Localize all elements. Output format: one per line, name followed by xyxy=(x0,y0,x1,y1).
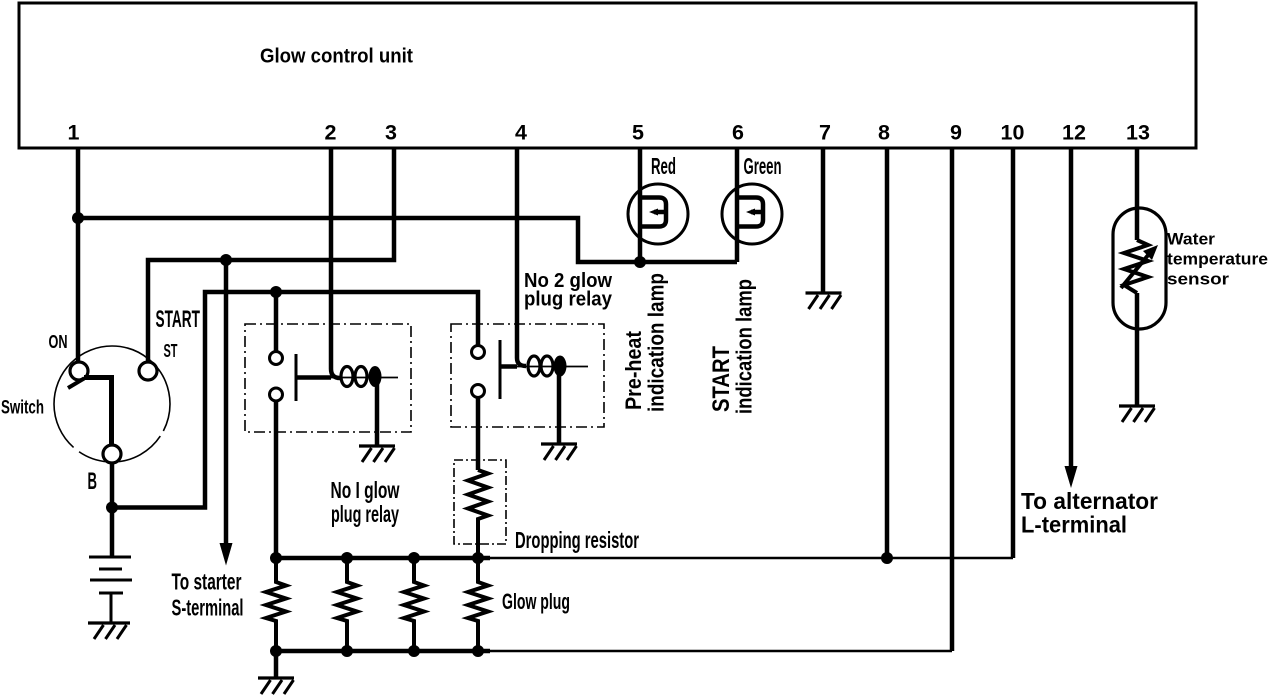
svg-text:Switch: Switch xyxy=(1,398,44,419)
switch contact ST xyxy=(139,362,157,380)
glow plug G3 xyxy=(404,558,424,651)
svg-text:sensor: sensor xyxy=(1167,270,1229,289)
node junction pin1 bus xyxy=(72,212,84,224)
switch rotor link ON-B xyxy=(68,379,84,389)
relay K2 box (No 2 glow plug relay) xyxy=(451,324,604,427)
relay2 armature xyxy=(499,340,502,399)
node top bus junctions xyxy=(270,552,484,564)
svg-text:Dropping resistor: Dropping resistor xyxy=(515,527,639,553)
ground at relay1 xyxy=(359,446,395,462)
wire terminal9 to bottom bus xyxy=(950,148,955,651)
ground at battery xyxy=(88,623,130,639)
svg-text:No I glow: No I glow xyxy=(331,477,400,503)
wire B junction to relay contacts feed xyxy=(112,292,478,508)
svg-text:13: 13 xyxy=(1126,121,1150,145)
svg-text:plug relay: plug relay xyxy=(524,288,613,311)
ground at sensor xyxy=(1119,406,1155,422)
battery BT1 xyxy=(89,508,132,623)
label: Pre-heat indication lamp (vertical) xyxy=(621,273,669,412)
node junction red lamp bottom xyxy=(634,256,646,268)
wire terminal2 to relay1 coil xyxy=(331,148,340,378)
ground at pin7 xyxy=(806,293,842,309)
svg-text:12: 12 xyxy=(1062,121,1086,145)
glow plug G1 xyxy=(266,558,286,651)
wire relay2 coil to ground xyxy=(557,366,562,444)
svg-text:8: 8 xyxy=(878,121,890,145)
wire B to junction xyxy=(110,463,115,508)
wire terminal12 to alternator with arrow xyxy=(1069,148,1074,466)
svg-text:6: 6 xyxy=(732,121,744,145)
wire terminal4 to relay2 coil xyxy=(517,148,526,366)
relay2 coil xyxy=(500,356,588,377)
lamp L1 red indicator bulb xyxy=(628,184,688,244)
node junction relay1 contact feed xyxy=(270,286,282,298)
relay K1 box (No 1 glow plug relay) xyxy=(245,324,411,432)
svg-text:S-terminal: S-terminal xyxy=(172,595,244,621)
svg-text:plug relay: plug relay xyxy=(331,501,399,527)
node junction starter branch xyxy=(220,254,232,266)
wire terminal10 to top bus xyxy=(1011,148,1016,558)
ground at relay2 xyxy=(541,444,577,460)
wire to starter S-terminal with arrow xyxy=(224,260,229,543)
wire sensor to ground xyxy=(1135,293,1140,406)
svg-text:indication lamp: indication lamp xyxy=(644,273,669,412)
wire terminal6 through green lamp xyxy=(735,148,740,262)
svg-text:ST: ST xyxy=(164,341,178,361)
relay1 top contact xyxy=(270,352,283,365)
label: Water temperature sensor xyxy=(1167,230,1268,289)
svg-text:ON: ON xyxy=(49,332,68,352)
svg-text:4: 4 xyxy=(515,121,527,145)
wire relay1 coil to ground xyxy=(375,377,380,446)
glow plug top bus xyxy=(276,556,490,561)
svg-text:5: 5 xyxy=(632,121,644,145)
switch contact ON xyxy=(70,362,88,380)
relay1 coil xyxy=(296,366,398,387)
dropping resistor R1 box xyxy=(454,460,506,544)
svg-text:L-terminal: L-terminal xyxy=(1021,512,1127,538)
svg-text:Green: Green xyxy=(744,153,782,179)
svg-text:To starter: To starter xyxy=(172,569,242,595)
glow control unit box U1 xyxy=(19,3,1196,148)
glow plug G2 xyxy=(337,558,357,651)
svg-text:3: 3 xyxy=(385,121,397,145)
glow plug G4 xyxy=(468,558,488,651)
node bottom bus junctions xyxy=(270,645,484,657)
relay1 armature xyxy=(295,354,298,401)
wire relay2 bottom contact to dropping resistor xyxy=(476,398,481,471)
wire junction to relay1 top contact xyxy=(274,292,279,352)
water temperature sensor RT1 xyxy=(1113,208,1166,329)
svg-text:START: START xyxy=(156,306,201,333)
svg-text:9: 9 xyxy=(950,121,962,145)
svg-text:Red: Red xyxy=(651,153,676,179)
svg-text:Glow control unit: Glow control unit xyxy=(260,46,413,68)
ground at glow plug bus xyxy=(258,678,294,694)
wire bottom bus to ground xyxy=(274,651,279,677)
svg-text:B: B xyxy=(88,468,98,495)
wire relay1 bottom contact to glow bus xyxy=(274,401,279,558)
relay1 bottom contact xyxy=(270,388,283,401)
svg-text:2: 2 xyxy=(325,121,337,145)
svg-text:To alternator: To alternator xyxy=(1021,488,1158,514)
dropping resistor R1 xyxy=(468,470,488,558)
wire terminal8 drop xyxy=(885,148,890,558)
svg-text:Water: Water xyxy=(1167,230,1215,249)
relay2 bottom contact xyxy=(472,385,485,398)
svg-text:1: 1 xyxy=(68,121,80,145)
svg-text:indication lamp: indication lamp xyxy=(732,279,757,414)
svg-text:Pre-heat: Pre-heat xyxy=(621,331,646,410)
glow plug bottom bus xyxy=(276,649,490,654)
lamp L2 green indicator bulb xyxy=(722,184,782,244)
svg-text:Glow plug: Glow plug xyxy=(502,589,570,614)
svg-text:7: 7 xyxy=(819,121,831,145)
node junction pin8 top bus xyxy=(881,552,893,564)
relay2 top contact xyxy=(472,346,485,359)
switch contact B xyxy=(103,445,121,463)
wire terminal3 to ST xyxy=(148,148,394,363)
wire terminal5 through red lamp xyxy=(638,148,643,262)
wire terminal7 to ground xyxy=(821,148,826,292)
node junction B xyxy=(106,502,118,514)
svg-text:temperature: temperature xyxy=(1167,250,1268,269)
wire pin1 to lamps bottom xyxy=(78,218,737,262)
svg-text:10: 10 xyxy=(1001,121,1025,145)
wire terminal1 drop xyxy=(76,148,81,363)
label: START indication lamp (vertical) xyxy=(708,279,757,414)
switch S1 body (dashed circle) xyxy=(54,346,170,462)
wire terminal13 to sensor xyxy=(1135,148,1140,240)
